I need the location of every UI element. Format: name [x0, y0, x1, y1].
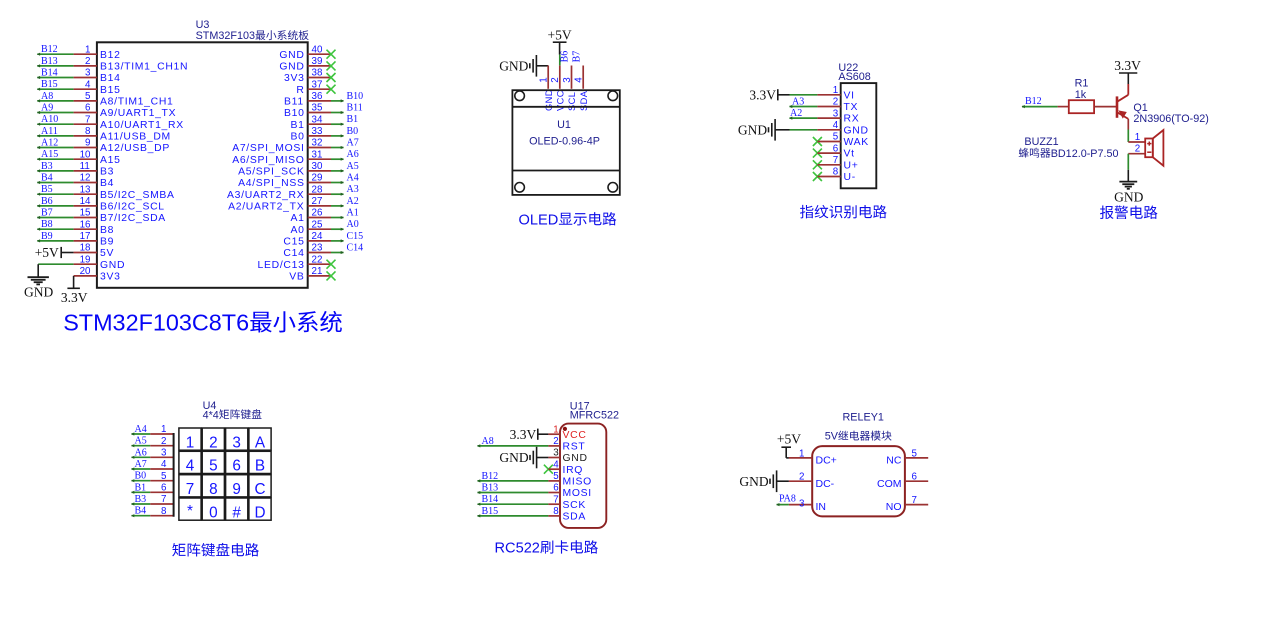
svg-text:32: 32	[312, 138, 323, 149]
U3 pin 23 right, net C14 wire	[283, 243, 363, 260]
svg-text:1: 1	[1135, 132, 1140, 143]
U3 pin 36 right, net B10 wire	[284, 91, 363, 108]
svg-text:VI: VI	[844, 90, 855, 101]
svg-text:OLED: OLED	[519, 212, 559, 228]
svg-text:GND: GND	[563, 453, 588, 464]
svg-text:A4/SPI_NSS: A4/SPI_NSS	[238, 178, 305, 189]
buzzer BUZZ1 pin 1	[1128, 132, 1145, 143]
svg-text:18: 18	[80, 243, 91, 254]
svg-text:1: 1	[799, 448, 804, 459]
svg-text:A12/USB_DP: A12/USB_DP	[100, 143, 170, 154]
U4 pin 4, net A7 wire	[131, 459, 174, 471]
svg-text:6: 6	[553, 483, 559, 494]
svg-text:COM: COM	[877, 478, 902, 490]
svg-text:B9: B9	[100, 237, 114, 248]
svg-text:11: 11	[80, 161, 90, 172]
GND power flag (relay)	[739, 470, 776, 492]
svg-text:SCL: SCL	[567, 92, 577, 111]
svg-text:2: 2	[553, 436, 558, 447]
U17 pin 4 no-connect X	[544, 459, 583, 475]
U3 pin 18, +5V power flag	[35, 243, 114, 260]
svg-text:14: 14	[80, 196, 91, 207]
title 矩阵键盘电路	[172, 543, 185, 556]
svg-text:1: 1	[85, 44, 90, 55]
ground symbol at U3 pin 19	[24, 264, 53, 299]
svg-text:A: A	[255, 434, 266, 451]
U3 pin 1 left, net B12 wire	[37, 44, 121, 61]
U3 pin 37 right, no-connect X	[296, 79, 335, 95]
svg-text:A12: A12	[41, 138, 58, 149]
IC U22 AS608 body	[841, 83, 877, 188]
U3 pin 35 right, net B11 wire	[284, 103, 363, 120]
svg-text:37: 37	[312, 79, 323, 90]
U3 pin 2 left, net B13 wire	[37, 56, 188, 73]
svg-text:7: 7	[85, 114, 90, 125]
svg-text:22: 22	[312, 254, 323, 265]
svg-text:A7/SPI_MOSI: A7/SPI_MOSI	[232, 143, 304, 154]
svg-text:8: 8	[209, 481, 218, 498]
svg-text:SDA: SDA	[579, 90, 589, 111]
OLED U1 pin 2 (VCC)	[550, 66, 565, 112]
svg-text:12: 12	[80, 173, 91, 184]
svg-text:B7/I2C_SDA: B7/I2C_SDA	[100, 213, 166, 224]
svg-text:5: 5	[209, 458, 218, 475]
U22 pin 8 no-connect X	[813, 167, 856, 183]
U3 pin 14 left, net B6 wire	[37, 196, 165, 213]
svg-text:+5V: +5V	[35, 245, 59, 260]
svg-text:A1: A1	[291, 213, 305, 224]
U3 pin 33 right, net B0 wire	[291, 126, 359, 143]
svg-text:1: 1	[161, 424, 166, 435]
relay pin 7 NO	[886, 495, 928, 513]
U17 pin 7, net B14 wire	[477, 494, 586, 511]
svg-text:A5: A5	[347, 161, 359, 172]
svg-text:B10: B10	[347, 91, 364, 102]
U4 pin 5, net B0 wire	[131, 471, 174, 483]
U22 pin 5 no-connect X	[813, 132, 869, 148]
svg-text:28: 28	[312, 184, 323, 195]
U4 pin 8, net B4 wire	[131, 506, 174, 518]
svg-text:Vt: Vt	[844, 149, 855, 160]
U3 pin 20, wire to 3.3V flag	[61, 266, 121, 305]
svg-text:B11: B11	[284, 97, 304, 108]
svg-text:B4: B4	[41, 173, 53, 184]
svg-text:U1: U1	[557, 119, 571, 131]
IC U3 STM32F103 minimum system board - body	[97, 42, 308, 287]
svg-text:16: 16	[80, 219, 91, 230]
svg-text:34: 34	[312, 114, 323, 125]
svg-text:B1: B1	[347, 114, 359, 125]
svg-text:6: 6	[912, 472, 918, 483]
label BUZZ1 value 蜂鸣器BD12.0-P7.50	[1019, 148, 1029, 158]
svg-text:7: 7	[912, 495, 917, 506]
U17 pin 2, net A8 wire	[477, 436, 585, 453]
svg-text:A9: A9	[41, 103, 53, 114]
svg-text:20: 20	[80, 266, 91, 277]
3.3V power flag (Q1 collector)	[1114, 58, 1141, 84]
svg-text:B5: B5	[41, 184, 53, 195]
svg-text:SDA: SDA	[563, 512, 586, 523]
svg-text:B6: B6	[560, 51, 571, 63]
svg-text:GND: GND	[499, 450, 528, 465]
svg-text:35: 35	[312, 103, 323, 114]
U3 pin 6 left, net A9 wire	[37, 103, 176, 120]
svg-text:17: 17	[80, 231, 91, 242]
svg-text:7: 7	[553, 494, 558, 505]
svg-text:3: 3	[799, 498, 805, 509]
svg-text:A10/UART1_RX: A10/UART1_RX	[100, 120, 184, 131]
svg-text:GND: GND	[739, 474, 768, 489]
svg-text:STM32F103: STM32F103	[196, 30, 255, 42]
svg-text:4: 4	[553, 459, 559, 470]
svg-text:LED/C13: LED/C13	[258, 260, 305, 271]
svg-text:B13: B13	[482, 483, 499, 494]
OLED U1 pin 1 (GND)	[539, 66, 554, 112]
U3 pin 32 right, net A7 wire	[232, 138, 359, 155]
svg-text:8: 8	[553, 506, 559, 517]
U4 pin 1, net A4 wire	[131, 424, 174, 436]
svg-text:A15: A15	[41, 149, 58, 160]
net label B12 wire to R1	[1022, 96, 1069, 108]
svg-text:3.3V: 3.3V	[1114, 58, 1141, 73]
svg-text:U+: U+	[844, 160, 859, 171]
3.3V power flag (AS608)	[749, 87, 789, 102]
svg-text:4*4: 4*4	[203, 409, 219, 421]
svg-text:A11/USB_DM: A11/USB_DM	[100, 132, 171, 143]
svg-text:+5V: +5V	[777, 432, 801, 447]
svg-text:A2/UART2_TX: A2/UART2_TX	[228, 202, 304, 213]
svg-text:B5/I2C_SMBA: B5/I2C_SMBA	[100, 190, 175, 201]
svg-text:U-: U-	[844, 172, 856, 183]
svg-text:B13: B13	[41, 56, 58, 67]
svg-text:B0: B0	[347, 126, 359, 137]
svg-text:A8: A8	[482, 436, 494, 447]
svg-text:A6: A6	[135, 447, 147, 458]
+5V power flag (OLED)	[548, 27, 572, 54]
svg-text:A7: A7	[135, 459, 147, 470]
svg-text:5: 5	[833, 132, 839, 143]
svg-text:3: 3	[85, 68, 91, 79]
U17 pin 3	[548, 448, 587, 464]
U3 pin 26 right, net A1 wire	[291, 208, 359, 225]
U3 pin 10 left, net A15 wire	[37, 149, 121, 166]
svg-text:4: 4	[833, 120, 839, 131]
U3 pin 29 right, net A4 wire	[238, 173, 359, 190]
svg-text:GND: GND	[738, 123, 767, 138]
relay pin 1 DC+	[789, 448, 837, 466]
svg-text:2: 2	[833, 97, 838, 108]
svg-text:36: 36	[312, 91, 323, 102]
U22 pin 2 wire	[789, 97, 858, 114]
svg-text:B3: B3	[135, 494, 147, 505]
svg-text:8: 8	[161, 506, 167, 517]
svg-text:D: D	[255, 504, 266, 521]
svg-text:RC522: RC522	[495, 541, 540, 557]
svg-text:7: 7	[833, 155, 838, 166]
U17 pin 6, net B13 wire	[477, 483, 592, 500]
GND power flag (OLED)	[499, 55, 536, 77]
svg-text:5: 5	[85, 91, 91, 102]
net label PA8 wire	[776, 494, 796, 507]
svg-text:#: #	[232, 504, 241, 521]
svg-text:GND: GND	[24, 285, 53, 300]
svg-text:B1: B1	[135, 482, 147, 493]
U3 pin 19, wire to ground	[38, 254, 125, 270]
svg-text:B7: B7	[41, 208, 53, 219]
U22 pin 3 wire	[789, 108, 859, 125]
U3 pin 9 left, net A12 wire	[37, 138, 170, 155]
svg-text:2: 2	[85, 56, 90, 67]
svg-text:B0: B0	[291, 132, 305, 143]
U3 pin 16 left, net B8 wire	[37, 219, 114, 236]
svg-text:*: *	[187, 503, 193, 520]
svg-text:AS608: AS608	[838, 71, 870, 83]
U3 pin 15 left, net B7 wire	[37, 208, 166, 225]
transistor Q1 2N3906 PNP	[1117, 84, 1128, 119]
U3 pin 11 left, net B3 wire	[37, 161, 114, 178]
svg-text:1: 1	[539, 77, 550, 82]
svg-text:A5/SPI_SCK: A5/SPI_SCK	[238, 167, 305, 178]
svg-text:3V3: 3V3	[100, 272, 121, 283]
svg-text:BD12.0-P7.50: BD12.0-P7.50	[1051, 148, 1119, 160]
svg-text:40: 40	[312, 44, 323, 55]
svg-text:SCK: SCK	[563, 500, 586, 511]
title 指纹识别电路	[800, 205, 814, 218]
U4 pin 6, net B1 wire	[131, 482, 174, 494]
svg-text:RX: RX	[844, 114, 860, 125]
svg-text:B10: B10	[284, 108, 305, 119]
svg-text:OLED-0.96-4P: OLED-0.96-4P	[529, 135, 600, 147]
svg-text:A11: A11	[41, 126, 58, 137]
GND power flag (AS608)	[738, 119, 775, 141]
U3 pin 40 right, no-connect X	[279, 44, 335, 60]
svg-text:C14: C14	[283, 248, 304, 259]
svg-text:B12: B12	[100, 50, 121, 61]
svg-text:MFRC522: MFRC522	[570, 410, 619, 422]
U4 pin 3, net A6 wire	[131, 447, 174, 459]
svg-text:B12: B12	[1025, 96, 1042, 107]
OLED U1 pin 4 (SDA)	[571, 51, 589, 111]
svg-text:IN: IN	[816, 501, 827, 513]
U3 pin 28 right, net A3 wire	[227, 184, 359, 201]
svg-text:B4: B4	[100, 178, 114, 189]
svg-text:3.3V: 3.3V	[61, 290, 88, 305]
svg-text:VCC: VCC	[556, 90, 566, 111]
svg-text:PA8: PA8	[779, 494, 796, 505]
relay pin 2 DC-	[777, 472, 835, 490]
relay module RELEY1 body	[812, 446, 905, 516]
svg-text:A1: A1	[347, 208, 359, 219]
svg-text:B12: B12	[41, 44, 58, 55]
title 报警电路	[1100, 206, 1114, 219]
svg-text:5V: 5V	[100, 248, 114, 259]
svg-text:DC-: DC-	[816, 478, 835, 490]
svg-text:B3: B3	[41, 161, 53, 172]
U3 pin 38 right, no-connect X	[284, 68, 336, 84]
OLED U1 pin 3 (SCL)	[560, 51, 578, 111]
svg-text:7: 7	[161, 494, 166, 505]
buzzer BUZZ1 speaker symbol	[1145, 130, 1163, 166]
svg-text:4: 4	[85, 79, 91, 90]
svg-text:3V3: 3V3	[284, 73, 305, 84]
svg-text:B4: B4	[135, 506, 147, 517]
svg-text:B11: B11	[347, 103, 363, 114]
svg-text:B6: B6	[41, 196, 53, 207]
svg-text:23: 23	[312, 243, 323, 254]
U3 pin 34 right, net B1 wire	[291, 114, 359, 131]
U22 pin 6 no-connect X	[813, 143, 855, 159]
svg-text:B: B	[255, 458, 265, 475]
svg-text:B9: B9	[41, 231, 53, 242]
wire R1 to Q1 base	[1094, 106, 1117, 108]
svg-text:C14: C14	[347, 243, 364, 254]
svg-text:+5V: +5V	[548, 27, 572, 42]
U3 pin 22 right, no-connect X	[258, 254, 336, 270]
U17 pin 5, net B12 wire	[477, 471, 592, 488]
svg-text:9: 9	[85, 138, 90, 149]
relay pin 3 IN	[789, 498, 826, 513]
svg-text:1: 1	[833, 85, 838, 96]
svg-text:GND: GND	[1114, 189, 1143, 204]
svg-text:B14: B14	[100, 73, 121, 84]
U4 pin 2, net A5 wire	[131, 436, 174, 448]
U3 pin 25 right, net A0 wire	[291, 219, 359, 236]
svg-text:GND: GND	[279, 62, 304, 73]
OLED module U1 body	[512, 90, 619, 195]
U3 pin 5 left, net A8 wire	[37, 91, 174, 108]
U3 pin 13 left, net B5 wire	[37, 184, 175, 201]
svg-text:C15: C15	[347, 231, 364, 242]
svg-text:GND: GND	[499, 59, 528, 74]
U3 pin 4 left, net B15 wire	[37, 79, 121, 96]
svg-text:TX: TX	[844, 102, 859, 113]
svg-text:GND: GND	[279, 50, 304, 61]
U3 pin 31 right, net A6 wire	[232, 149, 359, 166]
svg-text:31: 31	[312, 149, 323, 160]
keypad U4 4x4 key matrix	[179, 428, 271, 521]
svg-text:6: 6	[232, 458, 241, 475]
svg-text:A4: A4	[135, 424, 147, 435]
svg-text:4: 4	[574, 77, 585, 83]
svg-text:B8: B8	[41, 219, 53, 230]
svg-text:B6/I2C_SCL: B6/I2C_SCL	[100, 202, 165, 213]
U22 pin 4 wire	[790, 120, 869, 136]
svg-text:1: 1	[186, 434, 195, 451]
relay pin 6 COM	[877, 472, 928, 490]
svg-text:9: 9	[232, 481, 241, 498]
svg-text:3: 3	[161, 448, 167, 459]
svg-text:STM32F103C8T6: STM32F103C8T6	[63, 310, 249, 336]
svg-text:A6: A6	[347, 149, 359, 160]
svg-text:1: 1	[553, 424, 558, 435]
U3 pin 21 right, no-connect X	[289, 266, 335, 282]
svg-text:10: 10	[80, 149, 91, 160]
svg-text:4: 4	[186, 458, 195, 475]
svg-text:RST: RST	[563, 442, 586, 453]
svg-text:B15: B15	[100, 85, 121, 96]
svg-text:6: 6	[85, 103, 91, 114]
wire GND to OLED pin 1	[536, 65, 548, 67]
svg-text:2: 2	[550, 77, 561, 82]
svg-text:38: 38	[312, 68, 323, 79]
svg-text:A2: A2	[347, 196, 359, 207]
3.3V power flag (RC522)	[510, 427, 549, 442]
svg-text:A15: A15	[100, 155, 121, 166]
svg-text:A8/TIM1_CH1: A8/TIM1_CH1	[100, 97, 174, 108]
svg-text:VCC: VCC	[563, 430, 587, 441]
wire Q1 emitter to buzzer pin 1	[1127, 119, 1129, 142]
svg-text:MISO: MISO	[563, 477, 592, 488]
svg-text:24: 24	[312, 231, 323, 242]
svg-text:39: 39	[312, 56, 323, 67]
svg-text:C15: C15	[283, 237, 304, 248]
U3 pin 3 left, net B14 wire	[37, 68, 121, 85]
IC U17 MFRC522 body	[560, 424, 606, 528]
U3 pin 30 right, net A5 wire	[238, 161, 359, 178]
svg-text:2N3906(TO-92): 2N3906(TO-92)	[1133, 113, 1208, 125]
svg-text:GND: GND	[844, 125, 869, 136]
svg-text:B1: B1	[291, 120, 305, 131]
svg-text:B0: B0	[135, 471, 147, 482]
svg-text:B8: B8	[100, 225, 114, 236]
svg-text:8: 8	[85, 126, 91, 137]
resistor R1 1k	[1069, 100, 1094, 113]
svg-text:MOSI: MOSI	[563, 488, 592, 499]
svg-text:B13/TIM1_CH1N: B13/TIM1_CH1N	[100, 62, 188, 73]
svg-text:2: 2	[1135, 144, 1140, 155]
svg-text:26: 26	[312, 208, 323, 219]
svg-text:A4: A4	[347, 173, 359, 184]
ground symbol (buzzer)	[1114, 182, 1143, 205]
svg-text:4: 4	[161, 459, 167, 470]
U3 pin 7 left, net A10 wire	[37, 114, 184, 131]
U22 pin 1 wire	[790, 85, 855, 101]
+5V power flag (relay)	[777, 432, 801, 458]
svg-text:VB: VB	[289, 272, 304, 283]
svg-text:A10: A10	[41, 114, 58, 125]
svg-text:13: 13	[80, 184, 91, 195]
svg-text:25: 25	[312, 219, 323, 230]
svg-text:5: 5	[161, 471, 167, 482]
svg-text:3: 3	[232, 434, 241, 451]
svg-text:GND: GND	[544, 89, 554, 111]
svg-text:3.3V: 3.3V	[749, 87, 776, 102]
svg-text:21: 21	[312, 266, 323, 277]
svg-text:A0: A0	[347, 219, 359, 230]
svg-text:3: 3	[553, 448, 559, 459]
svg-text:C: C	[255, 481, 266, 498]
svg-text:3: 3	[833, 108, 839, 119]
svg-text:A6/SPI_MISO: A6/SPI_MISO	[232, 155, 304, 166]
svg-text:29: 29	[312, 173, 323, 184]
U22 pin 7 no-connect X	[813, 155, 859, 171]
U3 pin 24 right, net C15 wire	[283, 231, 363, 248]
svg-text:A5: A5	[135, 436, 147, 447]
svg-text:A8: A8	[41, 91, 53, 102]
U3 pin 8 left, net A11 wire	[37, 126, 171, 143]
U17 pin 8, net B15 wire	[477, 506, 586, 523]
svg-text:B15: B15	[482, 506, 499, 517]
svg-text:6: 6	[833, 143, 839, 154]
wire +5V to OLED pin 2	[559, 55, 561, 66]
svg-text:2: 2	[161, 436, 166, 447]
keypad U4 left body bar	[173, 433, 175, 517]
svg-text:IRQ: IRQ	[563, 465, 584, 476]
GND power flag (RC522)	[499, 447, 536, 469]
relay pin 5 NC	[886, 448, 928, 466]
svg-text:NC: NC	[886, 455, 902, 467]
svg-text:3: 3	[562, 77, 573, 83]
